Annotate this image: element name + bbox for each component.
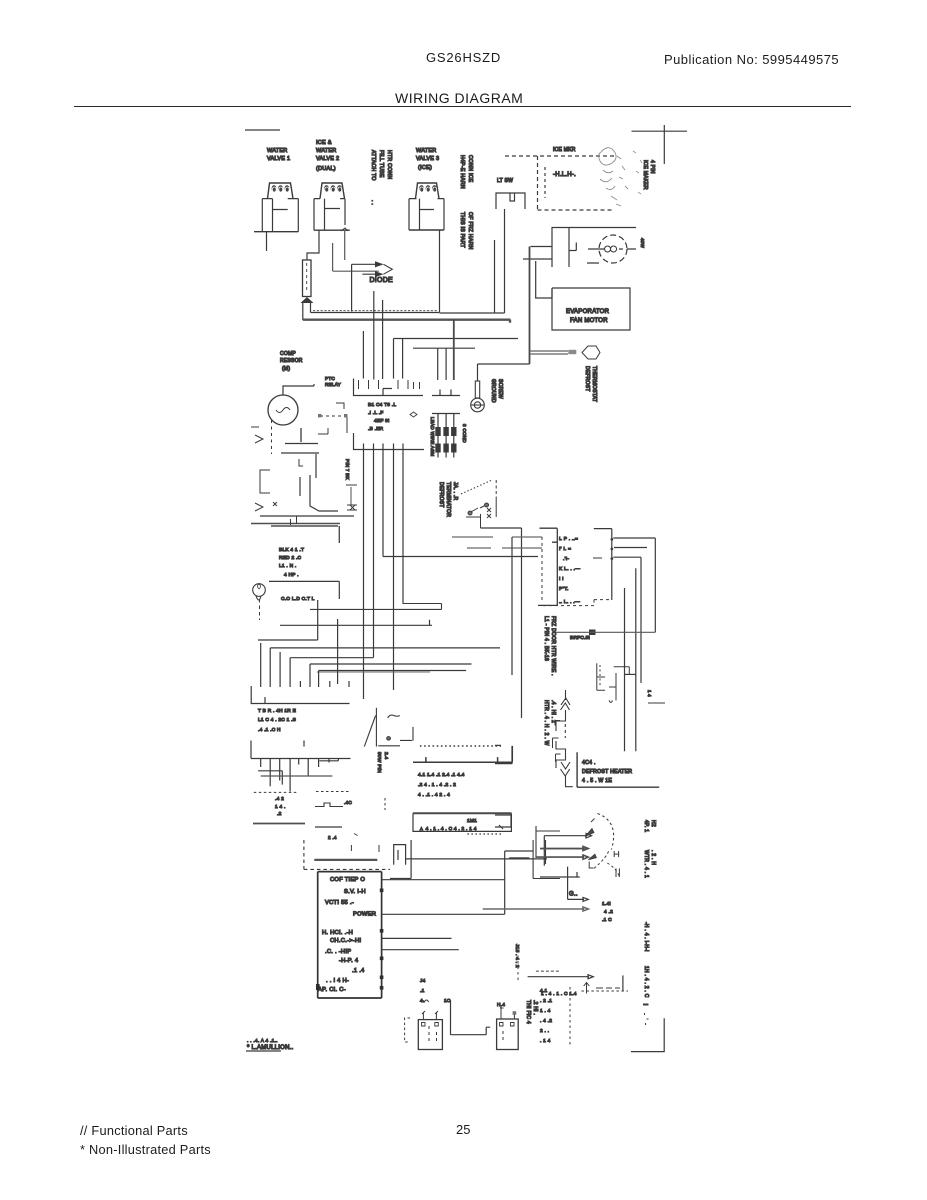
- ground screw stem: [475, 381, 479, 398]
- wire cold control top: [269, 581, 339, 599]
- thermostat lead double wire: [531, 351, 569, 354]
- wire disp mid left: [540, 867, 580, 900]
- wire WV2 right pin: [344, 231, 346, 260]
- svg-text:. . .4. A 4 .1..: . . .4. A 4 .1..: [247, 1038, 278, 1044]
- wire feed J1 second: [413, 347, 475, 349]
- wire bottom mid: [315, 826, 342, 828]
- wire WV3 right pin: [439, 230, 441, 312]
- svg-text:HTR CONN: HTR CONN: [386, 150, 392, 179]
- wire compressor top: [283, 384, 314, 395]
- wire bus row B thick: [251, 523, 340, 525]
- svg-text:THI FIC 4: THI FIC 4: [525, 1000, 531, 1024]
- wire bus jog: [625, 673, 636, 675]
- freezer light switch assembly: [552, 228, 637, 268]
- cable wire 2: [445, 414, 447, 458]
- svg-text:HTR . 4 . H . 2 . W: HTR . 4 . H . 2 . W: [543, 700, 549, 746]
- svg-text:ICE MAKER: ICE MAKER: [642, 160, 648, 190]
- svg-text:L1 - PIN 4 . BK-16: L1 - PIN 4 . BK-16: [543, 616, 549, 661]
- fuse R1 inner marks: [306, 263, 308, 290]
- svg-text:WATER: WATER: [416, 148, 437, 154]
- wire bus row A: [260, 515, 354, 517]
- bracket glyphs right: [553, 721, 561, 763]
- wire from fuse left: [302, 303, 304, 320]
- ground wire path: [478, 364, 530, 381]
- svg-text:J15 . 4 . 2: J15 . 4 . 2: [514, 944, 520, 968]
- wire stair 4: [270, 647, 500, 649]
- wire vert small: [622, 975, 624, 991]
- compressor terminal label: [279, 547, 304, 578]
- svg-text:K I.. . .—: K I.. . .—: [559, 566, 580, 572]
- wire bus vertical a: [511, 537, 513, 675]
- warning box: [413, 813, 511, 832]
- ground screw head: [471, 398, 485, 412]
- svg-text:1.4!: 1.4!: [602, 901, 611, 907]
- svg-text:1C: 1C: [444, 998, 451, 1004]
- water valve solenoid WV2 body: [314, 199, 345, 231]
- heater HTR1 shroud: [420, 1000, 429, 1002]
- wire gray seg d: [502, 547, 542, 549]
- svg-text:H4P-E HARN: H4P-E HARN: [459, 155, 465, 189]
- svg-text:PIN 7 BK: PIN 7 BK: [345, 459, 350, 481]
- heater dashes below: [384, 798, 386, 810]
- svg-text:4 PIN: 4 PIN: [649, 160, 655, 174]
- title rule: [74, 106, 851, 107]
- svg-text:CH.C.->-HI: CH.C.->-HI: [330, 938, 361, 944]
- svg-text:LT SW: LT SW: [497, 178, 513, 184]
- wire harness pin 4: [393, 339, 395, 379]
- wire disp arrow gray: [483, 907, 589, 911]
- wire P2 pin 1: [260, 759, 262, 768]
- rotated labels right column: [643, 820, 656, 998]
- svg-text:S.V. I-H: S.V. I-H: [344, 889, 366, 895]
- note bottom-left: [246, 1045, 294, 1051]
- wire drop k5: [309, 664, 311, 687]
- connector M shell: [413, 746, 512, 762]
- relay contact dashed: [318, 403, 347, 434]
- wire J2 pin C: [382, 450, 384, 557]
- wire P2 pin 4: [289, 759, 291, 792]
- dispenser inner bar thick: [314, 859, 377, 861]
- wire P2 pin 5: [298, 759, 300, 765]
- wire disp arrow top: [544, 833, 591, 865]
- svg-text:.1 .4: .1 .4: [352, 968, 365, 974]
- freezer lamp DS1: [587, 235, 636, 263]
- svg-text:40W: 40W: [640, 238, 645, 249]
- glyph arrow up: [584, 983, 620, 994]
- defrost heater element: [364, 708, 413, 747]
- connector P2 shell: [251, 741, 351, 759]
- footer functional parts note: [80, 1123, 188, 1138]
- svg-text:1 4: 1 4: [647, 690, 652, 697]
- small relay box b: [495, 815, 511, 829]
- svg-text:POWER: POWER: [353, 912, 376, 918]
- heater HTR1 inner dashes: [428, 1026, 430, 1044]
- heater HTR2 box: [497, 1019, 519, 1050]
- heater rotated label: [376, 752, 389, 773]
- wire start to staircase: [310, 475, 338, 511]
- switch nib 1: [585, 829, 594, 837]
- svg-text:2.4: 2.4: [383, 752, 389, 760]
- wire gray seg a: [452, 536, 493, 538]
- svg-text:H. HCI. .-H: H. HCI. .-H: [322, 930, 353, 936]
- wire bus vertical d: [624, 588, 626, 751]
- connector M labels: [418, 772, 465, 798]
- dashed rail right: [316, 791, 351, 793]
- svg-text:RESSOR: RESSOR: [280, 358, 303, 364]
- defrost thermostat bulb: [582, 346, 600, 359]
- frame mark bottom-right: [631, 1018, 664, 1051]
- wire long feed row: [383, 556, 538, 558]
- svg-text:.1 C: .1 C: [602, 917, 612, 923]
- dispenser label small: [275, 796, 286, 817]
- svg-text:50W PIN: 50W PIN: [376, 752, 382, 773]
- wire drop k3: [279, 652, 281, 687]
- wire disp arrow mid pair: [540, 846, 588, 850]
- pulse waveform symbol: [315, 803, 343, 807]
- ice maker rotated label right: [642, 160, 655, 190]
- frame mark top-left: [245, 129, 280, 131]
- connector M pins dotted: [420, 745, 501, 747]
- svg-text:OF FRZ HARN: OF FRZ HARN: [467, 212, 473, 250]
- wire plug drop: [390, 840, 411, 879]
- svg-text:ICE &: ICE &: [316, 140, 332, 146]
- wire board out 1: [382, 879, 505, 881]
- wire from fuse right: [310, 303, 312, 313]
- wire cable drop 1: [437, 348, 439, 380]
- wire to switch: [523, 247, 552, 260]
- svg-text:. 2 .1: . 2 .1: [540, 998, 552, 1004]
- wire heat loop 3: [613, 557, 641, 683]
- wire board out 4: [382, 949, 459, 951]
- svg-text:-H . 4 . I-H-I: -H . 4 . I-H-I: [643, 922, 649, 952]
- svg-text:VALVE 1: VALVE 1: [267, 156, 290, 162]
- rotated harness label tall: [543, 616, 556, 746]
- svg-text:TERMINATOR: TERMINATOR: [445, 482, 451, 517]
- svg-text:GROUND: GROUND: [490, 379, 496, 403]
- dashed gray seg: [536, 970, 560, 972]
- wire long dispenser feed: [406, 858, 547, 860]
- bottom table dots: [540, 988, 552, 1044]
- svg-text:JA. . .R: JA. . .R: [452, 482, 458, 501]
- splice block mid: [589, 630, 596, 636]
- heater rotated label pair: [525, 1000, 538, 1024]
- relay bracket wire: [333, 243, 379, 271]
- dashed row bottom: [581, 990, 628, 992]
- connector key diamond: [410, 412, 417, 417]
- svg-text:2 .4: 2 .4: [328, 835, 337, 840]
- svg-text:4 . .1 . 4 2 . 4: 4 . .1 . 4 2 . 4: [418, 792, 450, 798]
- connector J1 right stub: [432, 390, 460, 396]
- wire P2 pin 3: [279, 759, 281, 781]
- svg-text:1M1: 1M1: [467, 818, 477, 824]
- auger motor box right top: [594, 529, 612, 600]
- svg-text:.2 4 . 1 . 4 .2 . 2: .2 4 . 1 . 4 .2 . 2: [418, 782, 456, 788]
- svg-text:.2 HI .: .2 HI .: [532, 1000, 538, 1015]
- svg-text:.B .ER: .B .ER: [368, 426, 384, 432]
- svg-text:3 COND: 3 COND: [462, 424, 467, 443]
- svg-text:▲ 4 . 1 . 4 . C 4 . 2 . 1 4: ▲ 4 . 1 . 4 . C 4 . 2 . 1 4: [419, 826, 477, 832]
- switch arc 2 dashed: [594, 849, 619, 877]
- control board text rows: [318, 877, 376, 993]
- svg-text:SCREW: SCREW: [497, 379, 503, 399]
- svg-text:.2: .2: [277, 811, 282, 817]
- svg-text:.. I.. . .—: .. I.. . .—: [559, 599, 580, 605]
- node arrow junction: [301, 297, 314, 303]
- svg-text:DEFROST: DEFROST: [584, 366, 590, 392]
- heater HTR1 box: [418, 1020, 442, 1050]
- evaporator fan housing: [552, 288, 630, 330]
- diode D1 symbol: [352, 261, 393, 277]
- svg-text:COMP: COMP: [280, 351, 296, 357]
- footer non-illustrated note: [80, 1142, 211, 1157]
- wire J2 pin E: [402, 450, 404, 604]
- fresh food light switch SW1: [496, 193, 525, 209]
- svg-text:.4 2: .4 2: [275, 796, 284, 802]
- svg-text:(ICE): (ICE): [418, 165, 432, 171]
- thermostat rotated label: [584, 366, 597, 402]
- wire stair 5: [290, 657, 373, 659]
- bottom left text bits: [420, 978, 505, 1008]
- svg-text:2 . .: 2 . .: [540, 1028, 549, 1034]
- heater HTR1 terminals: [422, 1023, 439, 1027]
- svg-text:1 4 .: 1 4 .: [275, 804, 286, 810]
- bottom dashed vertical 2: [517, 950, 519, 982]
- svg-text:(DUAL): (DUAL): [316, 166, 336, 172]
- svg-text:WATER: WATER: [316, 148, 337, 154]
- wire switch jumper: [536, 261, 552, 298]
- connector J2 pin ticks: [364, 444, 404, 450]
- freezer thermostat lead dashes: [259, 599, 261, 620]
- wire hook junction: [291, 516, 297, 525]
- svg-text:WTR . 4 . 1: WTR . 4 . 1: [643, 850, 649, 878]
- connector P1 labels: [258, 708, 296, 733]
- water valve solenoid WV3 coil: [416, 183, 440, 199]
- cable three-wire top: [432, 413, 460, 415]
- svg-text:COF TIEP O: COF TIEP O: [330, 877, 365, 883]
- svg-text:G..: G..: [569, 892, 578, 898]
- ice maker inner dashed bar: [544, 167, 546, 198]
- heater HTR1 pins: [422, 1011, 438, 1020]
- ice maker dashed outline: [505, 156, 614, 210]
- dotted under box: [467, 833, 502, 835]
- heater HTR2 terminals: [500, 1023, 515, 1027]
- connector P1 shell: [251, 686, 349, 704]
- switch glyph H: [614, 851, 619, 877]
- wire cone out: [481, 528, 522, 718]
- svg-text:T B R . 4H 1R E: T B R . 4H 1R E: [258, 708, 296, 714]
- svg-text:EVAPORATOR: EVAPORATOR: [566, 309, 610, 315]
- svg-text:.4 . HI . 2: .4 . HI . 2: [550, 700, 556, 723]
- wire harness pin 2: [373, 291, 375, 380]
- freezer thermostat tadpole: [253, 584, 266, 600]
- svg-text:L1 . N .: L1 . N .: [279, 563, 296, 569]
- connector J2 shell: [354, 433, 425, 450]
- svg-text:DIODE: DIODE: [370, 277, 394, 284]
- svg-text:. . I 4 H-: . . I 4 H-: [326, 978, 349, 984]
- svg-text:.'I-: .'I-: [563, 556, 569, 562]
- svg-text:B1 C4 T8 .L: B1 C4 T8 .L: [368, 402, 396, 408]
- connector J1 stub pins: [359, 380, 420, 389]
- frame mark top-right: [632, 125, 688, 164]
- svg-text:ICE MKR: ICE MKR: [553, 147, 576, 153]
- rotated harness label column B: [459, 155, 473, 250]
- overload bracket: [260, 470, 270, 493]
- connector J1 pin labels: [368, 402, 396, 432]
- compressor internal protector dashes: [271, 420, 273, 454]
- page title: [395, 90, 523, 106]
- svg-text:4 . 5 . W 1E: 4 . 5 . W 1E: [582, 778, 612, 784]
- cable wire 3: [453, 414, 455, 458]
- svg-text:WATER: WATER: [267, 148, 288, 154]
- wire vertical from light switch: [494, 240, 496, 313]
- wire bottom arrow long: [528, 975, 594, 979]
- heater dashed bracket: [405, 1018, 410, 1042]
- ice maker scribble motor: [599, 148, 645, 206]
- wire drop k4: [289, 658, 291, 687]
- svg-text:LEAD WIRE ASM: LEAD WIRE ASM: [430, 417, 435, 457]
- rotated harness label column A: [370, 150, 392, 205]
- switch arc 1 dashed: [598, 814, 614, 850]
- svg-text:VCTI 55 .-: VCTI 55 .-: [325, 900, 354, 906]
- compressor motor M1: [268, 395, 298, 425]
- run capacitor C1: [281, 428, 319, 466]
- defrost control box: [577, 752, 659, 787]
- ground rotated label: [490, 379, 503, 403]
- wire stair 8: [317, 671, 430, 673]
- svg-text:. 2 . H: . 2 . H: [650, 850, 656, 865]
- svg-text:. 4 .2: . 4 .2: [540, 1018, 552, 1024]
- svg-text:4.1: 4.1: [540, 988, 548, 994]
- wire P2 cross a: [258, 771, 282, 785]
- wire drop k6: [318, 671, 320, 688]
- wire stair 3: [280, 620, 432, 626]
- wire harness pin 5: [402, 339, 404, 379]
- svg-text:.1: .1: [420, 988, 425, 994]
- receptacle cluster: [509, 826, 588, 879]
- wire cable drop 3: [453, 320, 455, 380]
- wire stair 6: [310, 663, 472, 665]
- defrost control text: [582, 760, 632, 784]
- wire disp arrow low: [568, 897, 589, 901]
- small relay box a: [495, 745, 512, 764]
- heater HTR2 inner: [502, 1031, 504, 1043]
- svg-text:4.1 1.4 .1 2.4 .1 4.4: 4.1 1.4 .1 2.4 .1 4.4: [418, 772, 465, 778]
- wire P2 cross b: [261, 775, 333, 777]
- svg-text:J4: J4: [420, 978, 426, 984]
- wire gray seg c: [467, 547, 491, 549]
- cable wire 1: [437, 414, 439, 458]
- board pin dots: [316, 889, 383, 991]
- svg-text:P"T.: P"T.: [559, 586, 569, 592]
- svg-text:BRFC.5!: BRFC.5!: [570, 635, 590, 641]
- svg-text:.C. . -HIP: .C. . -HIP: [325, 949, 351, 955]
- svg-text:FILL TUBE: FILL TUBE: [378, 150, 384, 178]
- switch text cluster: [602, 901, 613, 923]
- short tick: [648, 702, 665, 704]
- wire N bus lower thick: [303, 320, 511, 323]
- fuse resistor R1 body: [303, 260, 312, 297]
- svg-text:1 . 4: 1 . 4: [540, 1008, 551, 1014]
- svg-text:DEFROST HEATER: DEFROST HEATER: [582, 769, 632, 775]
- auger connector edge: [538, 528, 557, 605]
- wire WV1 pin: [266, 232, 268, 251]
- wire heat loop 1: [613, 538, 655, 632]
- wire drop k2: [269, 648, 271, 687]
- svg-text:FRZ DOOR HTR WIRE .: FRZ DOOR HTR WIRE .: [550, 616, 556, 676]
- svg-text:H.4: H.4: [497, 1002, 505, 1008]
- svg-text:I' I. =: I' I. =: [559, 546, 571, 552]
- svg-text:THERMOSTAT: THERMOSTAT: [591, 366, 597, 402]
- wire board out 3: [382, 937, 452, 939]
- svg-text:RED 2 .C: RED 2 .C: [279, 555, 302, 561]
- svg-text:RELAY: RELAY: [325, 382, 341, 387]
- wire P2 hook: [319, 759, 338, 761]
- wire bus vertical c: [635, 568, 637, 751]
- svg-text:4P. 1: 4P. 1: [643, 820, 649, 832]
- defrost thermostat inline: [597, 663, 630, 702]
- wire long cross vertical: [337, 619, 339, 684]
- wire SW1 pin: [504, 209, 506, 313]
- svg-text:BLK 4 1 .T: BLK 4 1 .T: [279, 547, 304, 553]
- svg-text:I. P . ..=: I. P . ..=: [559, 536, 578, 542]
- svg-text:4.: 4.: [420, 998, 425, 1004]
- svg-text:I I: I I: [559, 576, 564, 582]
- water valve solenoid WV3 body: [409, 199, 444, 230]
- wire J2 pin A: [363, 450, 365, 700]
- svg-text:1H . 4 . 2 . C: 1H . 4 . 2 . C: [643, 966, 649, 998]
- wire P2 pin 6: [307, 759, 309, 776]
- zigzag heater feed: [556, 690, 573, 787]
- svg-text:CONN ICE: CONN ICE: [467, 155, 473, 183]
- tick mark: [354, 834, 358, 836]
- wire P2 pin 8: [328, 759, 330, 763]
- svg-text:. .: . .: [370, 200, 376, 205]
- wire bus row C: [271, 526, 339, 543]
- water valve solenoid WV1 body: [262, 199, 298, 232]
- wire stair 1: [258, 600, 318, 640]
- wire P2 pin 7: [318, 759, 320, 768]
- svg-text:4C4 .: 4C4 .: [582, 760, 596, 766]
- wire L1 bus upper: [311, 312, 505, 315]
- dispenser inner tick: [351, 845, 379, 852]
- svg-text:.4 .1 .C H: .4 .1 .C H: [258, 727, 281, 733]
- heater HTR2 pins: [500, 1006, 514, 1019]
- svg-text:ATTACH TO: ATTACH TO: [370, 150, 376, 181]
- dashed corner ice box: [540, 600, 612, 606]
- svg-text:DEFROST: DEFROST: [438, 482, 444, 508]
- wire drop k1: [260, 643, 262, 687]
- wire harness pin 1: [362, 331, 364, 379]
- wire compressor run: [299, 477, 301, 496]
- svg-text:(M): (M): [282, 366, 290, 372]
- dispenser dashed enclosure: [304, 840, 390, 869]
- connector J1 shell: [354, 379, 424, 396]
- svg-text:-H.L.H-.: -H.L.H-.: [553, 172, 576, 178]
- wire stair 7: [319, 670, 466, 672]
- wire bottom left thick: [253, 823, 305, 825]
- svg-text:. 1 4: . 1 4: [540, 1038, 551, 1044]
- auger connector pin list: [559, 536, 580, 605]
- header publication number: [664, 52, 839, 67]
- wire L1 bus upper dotted pair: [313, 310, 438, 312]
- water valve solenoid WV1 coil: [268, 183, 294, 199]
- svg-text:-H-P. 4: -H-P. 4: [339, 958, 359, 964]
- chevron marks left: [251, 427, 277, 511]
- wire WV2 left pin: [307, 230, 319, 260]
- water valve solenoid WV2 coil: [320, 183, 345, 199]
- svg-text:* L.AMULLION..: * L.AMULLION..: [247, 1045, 294, 1051]
- thermostat connector block: [568, 350, 576, 354]
